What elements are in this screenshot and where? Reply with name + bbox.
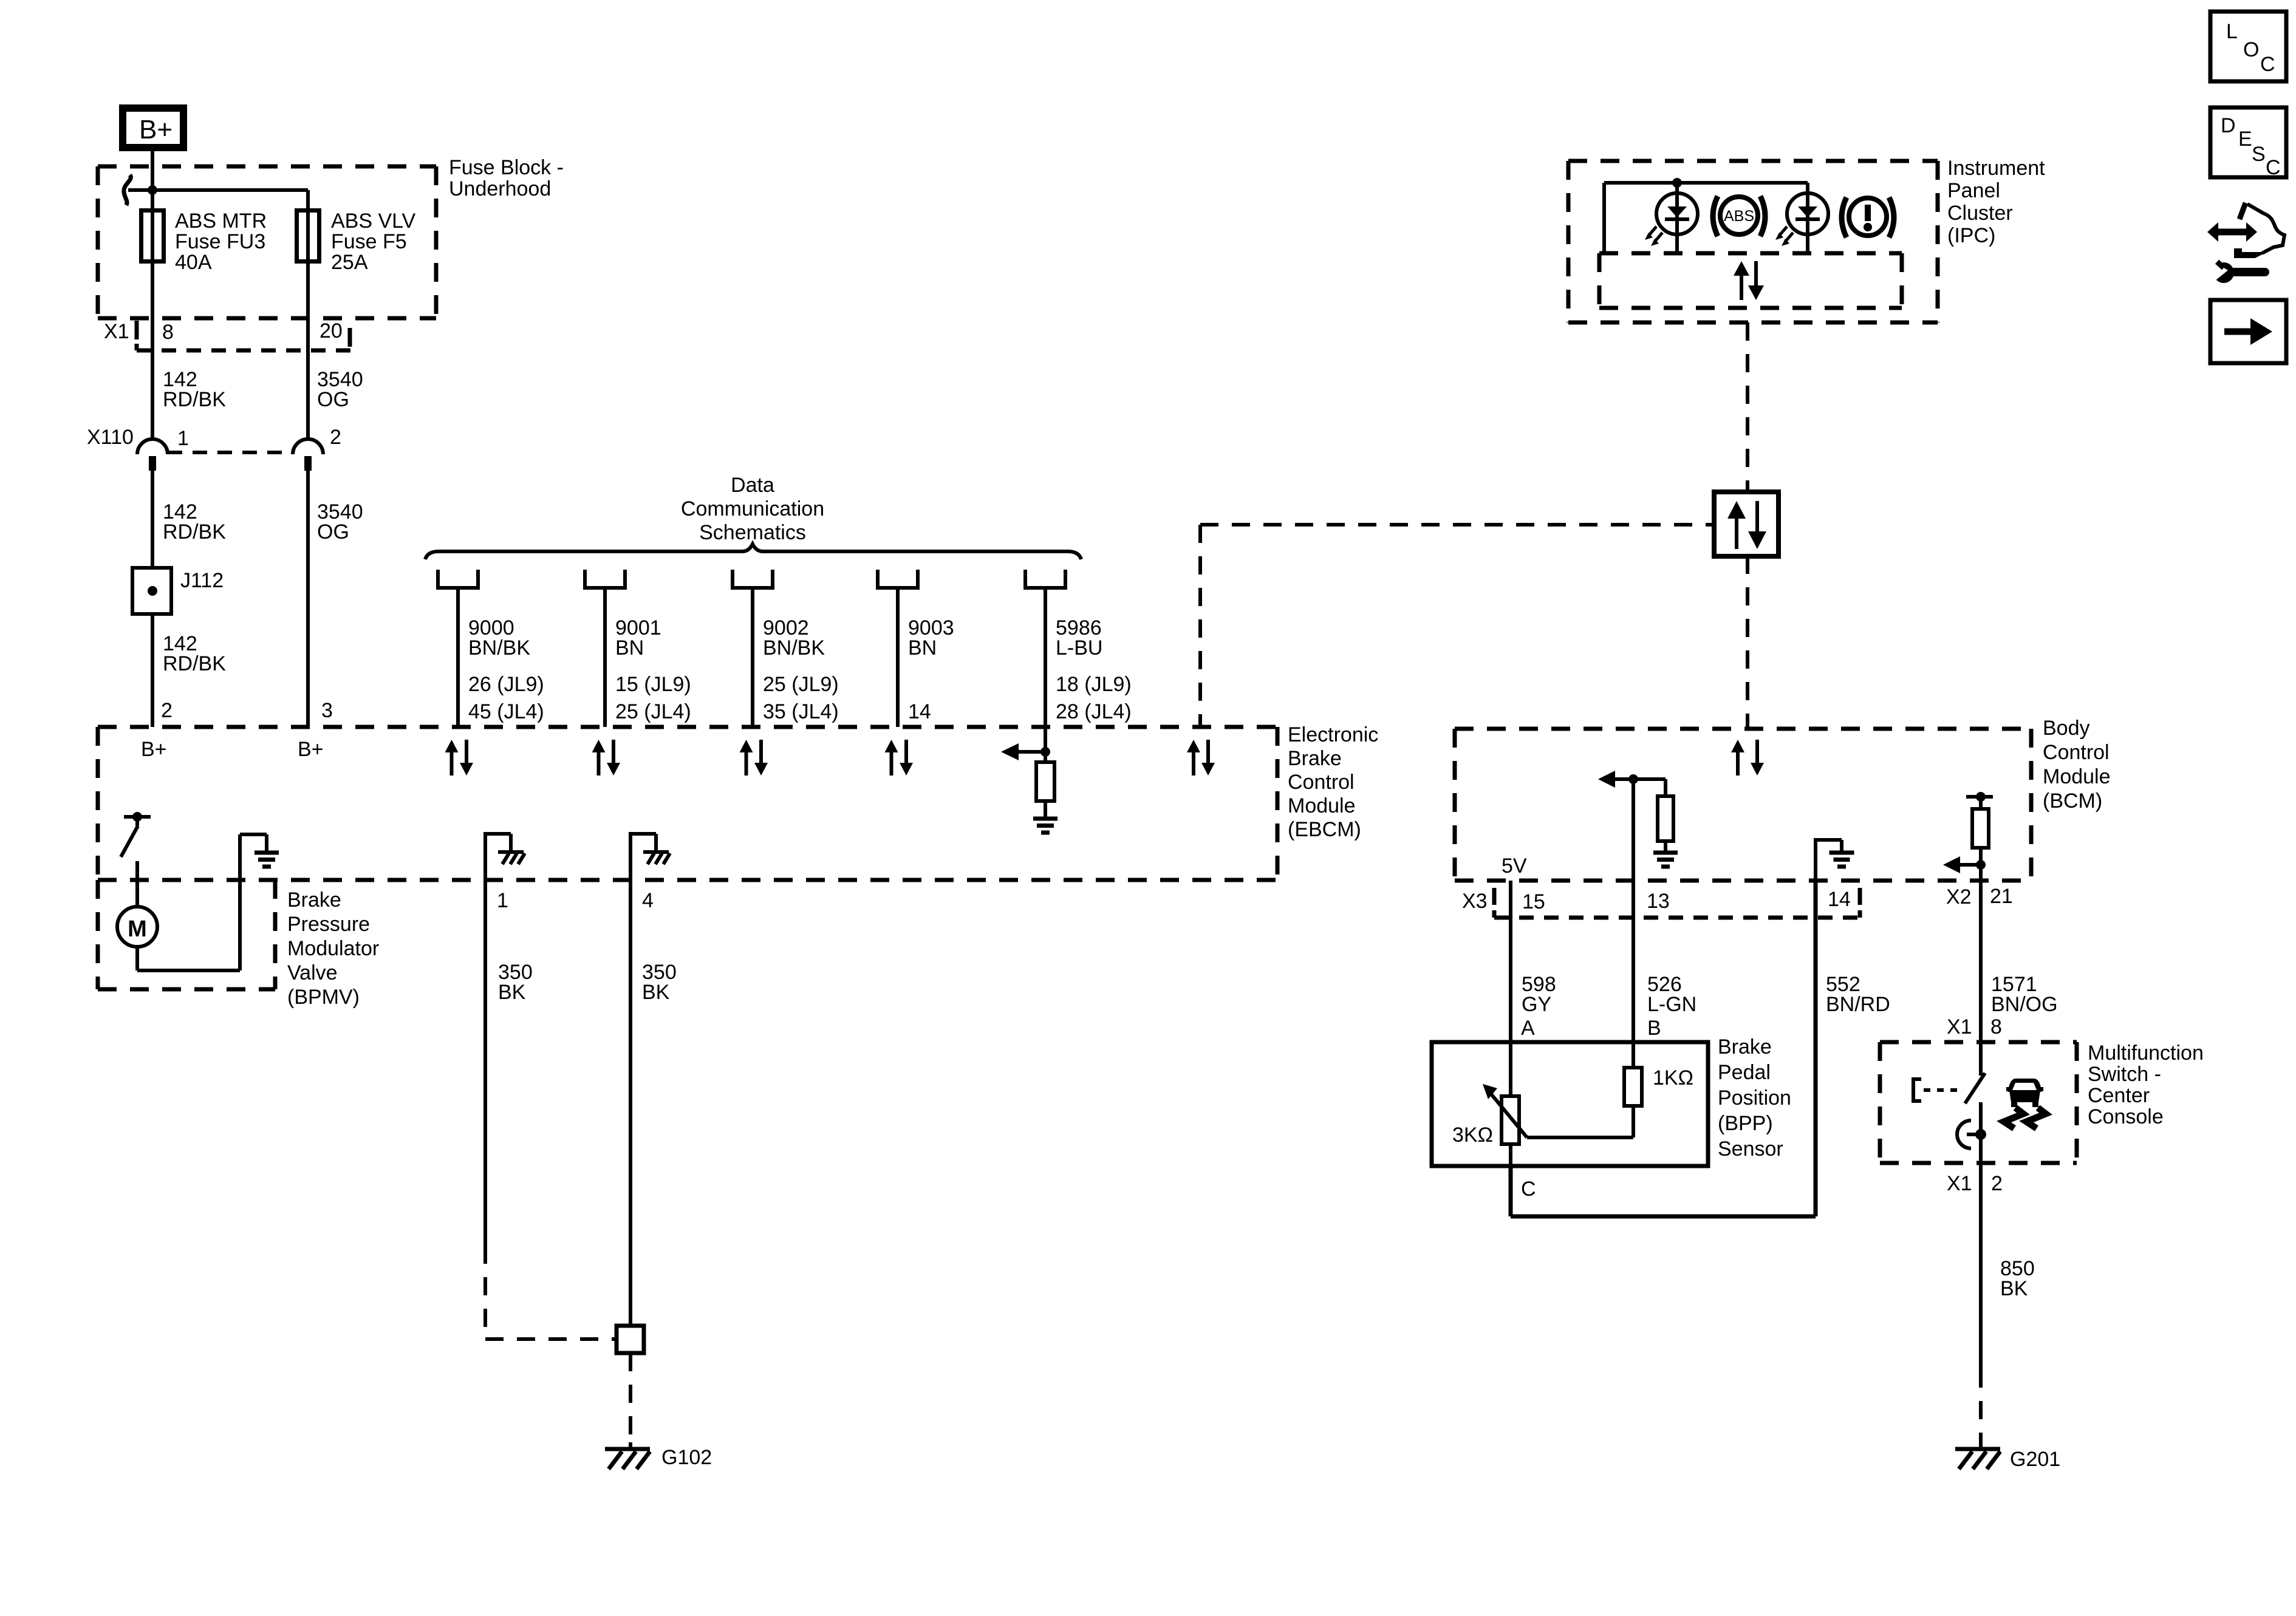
svg-text:BN/BK: BN/BK (763, 636, 825, 660)
svg-text:Brake: Brake (1718, 1035, 1772, 1059)
svg-text:X1: X1 (1947, 1015, 1972, 1038)
svg-text:25 (JL4): 25 (JL4) (615, 700, 691, 723)
svg-text:GY: GY (1522, 993, 1551, 1016)
svg-text:E: E (2238, 128, 2252, 151)
svg-text:RD/BK: RD/BK (163, 388, 226, 411)
svg-text:BN/BK: BN/BK (468, 636, 530, 660)
svg-text:2: 2 (330, 426, 341, 449)
svg-text:Brake: Brake (287, 888, 341, 912)
svg-text:2: 2 (1991, 1172, 2003, 1195)
svg-text:13: 13 (1647, 890, 1670, 913)
svg-text:3KΩ: 3KΩ (1452, 1123, 1493, 1147)
svg-text:B+: B+ (141, 738, 167, 761)
svg-text:L: L (2226, 20, 2238, 43)
svg-text:3: 3 (321, 699, 333, 722)
svg-text:B: B (1647, 1017, 1661, 1040)
svg-text:2: 2 (161, 699, 173, 722)
svg-text:1KΩ: 1KΩ (1653, 1066, 1693, 1089)
svg-text:Modulator: Modulator (287, 937, 379, 960)
svg-text:25A: 25A (331, 251, 368, 274)
svg-text:4: 4 (642, 889, 654, 912)
svg-text:14: 14 (908, 700, 931, 723)
svg-text:OG: OG (317, 388, 349, 411)
svg-text:BK: BK (498, 981, 526, 1004)
svg-text:B+: B+ (298, 738, 324, 761)
svg-text:(BCM): (BCM) (2043, 789, 2102, 813)
svg-text:Console: Console (2088, 1105, 2164, 1128)
svg-text:S: S (2252, 143, 2266, 166)
svg-text:Fuse F5: Fuse F5 (331, 230, 407, 253)
svg-text:Pedal: Pedal (1718, 1061, 1771, 1084)
svg-text:Fuse FU3: Fuse FU3 (175, 230, 265, 253)
svg-text:18 (JL9): 18 (JL9) (1056, 673, 1132, 696)
svg-text:Communication: Communication (681, 497, 824, 520)
svg-text:Cluster: Cluster (1947, 202, 2013, 225)
svg-text:Body: Body (2043, 717, 2090, 740)
svg-text:L-BU: L-BU (1056, 636, 1102, 660)
svg-text:C: C (1521, 1178, 1536, 1201)
svg-text:ABS: ABS (1724, 208, 1754, 225)
svg-text:Brake: Brake (1288, 747, 1342, 770)
svg-text:X2: X2 (1946, 885, 1972, 909)
svg-text:Position: Position (1718, 1086, 1791, 1110)
svg-text:X1: X1 (1947, 1172, 1972, 1195)
svg-text:G201: G201 (2010, 1448, 2060, 1471)
svg-text:Fuse Block -: Fuse Block - (449, 156, 564, 179)
svg-text:8: 8 (1990, 1015, 2002, 1038)
svg-text:14: 14 (1828, 888, 1851, 911)
svg-text:15: 15 (1522, 890, 1545, 913)
svg-text:8: 8 (162, 321, 174, 344)
svg-text:25 (JL9): 25 (JL9) (763, 673, 839, 696)
svg-text:Instrument: Instrument (1947, 157, 2045, 180)
svg-text:O: O (2243, 38, 2259, 61)
svg-text:X110: X110 (87, 426, 134, 449)
svg-text:35 (JL4): 35 (JL4) (763, 700, 839, 723)
svg-text:G102: G102 (661, 1446, 712, 1469)
svg-text:A: A (1521, 1017, 1535, 1040)
svg-text:20: 20 (319, 319, 343, 343)
svg-text:Electronic: Electronic (1288, 723, 1378, 746)
svg-text:BN/OG: BN/OG (1991, 993, 2058, 1016)
svg-text:(BPP): (BPP) (1718, 1112, 1773, 1135)
svg-text:Pressure: Pressure (287, 913, 370, 936)
svg-text:Sensor: Sensor (1718, 1137, 1783, 1161)
svg-text:Module: Module (1288, 794, 1356, 817)
svg-text:B+: B+ (139, 115, 173, 145)
svg-text:(IPC): (IPC) (1947, 224, 1995, 247)
svg-text:Panel: Panel (1947, 179, 2000, 202)
svg-text:Valve: Valve (287, 961, 338, 984)
svg-text:Module: Module (2043, 765, 2111, 788)
svg-text:5V: 5V (1502, 854, 1527, 878)
svg-text:40A: 40A (175, 251, 212, 274)
svg-text:BN: BN (615, 636, 644, 660)
svg-text:Switch -: Switch - (2088, 1063, 2161, 1086)
svg-text:(EBCM): (EBCM) (1288, 818, 1361, 841)
svg-text:M: M (128, 916, 147, 942)
svg-text:X3: X3 (1462, 890, 1488, 913)
svg-text:Multifunction: Multifunction (2088, 1042, 2204, 1065)
svg-text:ABS MTR: ABS MTR (175, 210, 267, 233)
svg-text:BN: BN (908, 636, 937, 660)
svg-text:Control: Control (2043, 741, 2110, 764)
svg-text:C: C (2260, 53, 2275, 76)
svg-text:BK: BK (2000, 1277, 2028, 1300)
svg-text:X1: X1 (104, 320, 129, 343)
svg-text:(BPMV): (BPMV) (287, 986, 360, 1009)
svg-text:45 (JL4): 45 (JL4) (468, 700, 544, 723)
svg-text:Center: Center (2088, 1084, 2150, 1107)
svg-text:1: 1 (497, 889, 508, 912)
svg-text:1: 1 (177, 427, 189, 450)
svg-text:OG: OG (317, 520, 349, 544)
svg-text:C: C (2266, 156, 2281, 179)
svg-text:Control: Control (1288, 771, 1355, 794)
svg-text:D: D (2221, 114, 2236, 137)
svg-text:BN/RD: BN/RD (1826, 993, 1890, 1016)
svg-text:15 (JL9): 15 (JL9) (615, 673, 691, 696)
svg-text:RD/BK: RD/BK (163, 652, 226, 675)
svg-text:Data: Data (731, 474, 774, 497)
svg-text:26 (JL9): 26 (JL9) (468, 673, 544, 696)
svg-text:ABS VLV: ABS VLV (331, 210, 416, 233)
svg-text:21: 21 (1990, 885, 2013, 908)
svg-text:BK: BK (642, 981, 670, 1004)
svg-text:L-GN: L-GN (1647, 993, 1696, 1016)
svg-text:RD/BK: RD/BK (163, 520, 226, 544)
svg-text:J112: J112 (180, 569, 224, 592)
svg-text:Underhood: Underhood (449, 177, 551, 200)
svg-text:28 (JL4): 28 (JL4) (1056, 700, 1132, 723)
